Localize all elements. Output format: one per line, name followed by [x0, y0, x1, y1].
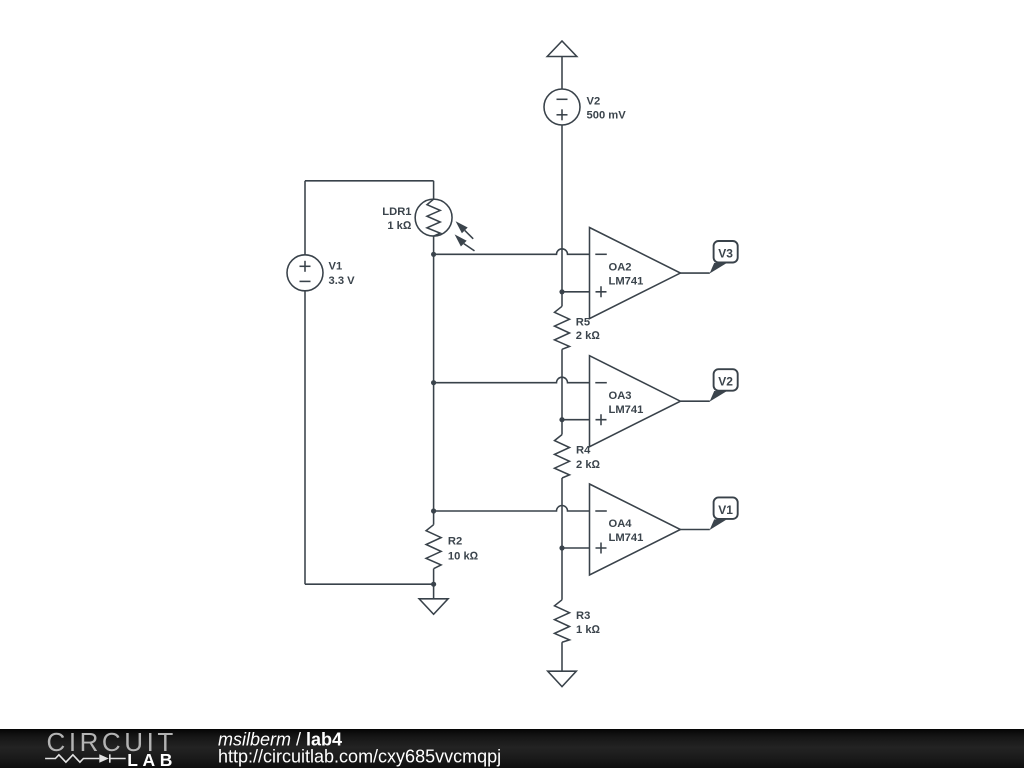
svg-text:R2: R2 [448, 536, 462, 548]
flag V3 [710, 241, 738, 274]
svg-text:V1: V1 [329, 261, 343, 273]
svg-text:http://circuitlab.com/cxy685vv: http://circuitlab.com/cxy685vvcmqpj [218, 746, 501, 766]
label R5 [576, 317, 601, 343]
svg-text:2 kΩ: 2 kΩ [576, 459, 601, 471]
wire OA3 non-inverting input [562, 419, 590, 421]
svg-text:R5: R5 [576, 317, 590, 329]
logo resistor-diode line [45, 754, 126, 762]
node E dot [431, 380, 436, 385]
svg-text:OA3: OA3 [609, 390, 632, 402]
svg-text:500 mV: 500 mV [587, 110, 627, 122]
label V1 value [329, 261, 356, 288]
resistor R5 [555, 292, 570, 420]
svg-text:LM741: LM741 [609, 532, 644, 544]
svg-text:LM741: LM741 [609, 404, 644, 416]
svg-text:OA4: OA4 [609, 518, 633, 530]
resistor R4 [555, 420, 570, 548]
node A dot [559, 289, 564, 294]
LDR1 arrow 2 [455, 234, 475, 251]
svg-text:V3: V3 [718, 246, 733, 260]
label OA4 [609, 518, 644, 544]
wire OA4 output [680, 529, 709, 531]
bottom bar [0, 729, 1024, 768]
resistor R2 [426, 511, 441, 584]
node B dot [559, 417, 564, 422]
wire middle vertical [433, 254, 435, 511]
op-amp OA4 [590, 484, 681, 575]
svg-text:V1: V1 [718, 503, 733, 517]
op-amp OA3 [590, 356, 681, 447]
ground G2 [548, 671, 577, 686]
flag V1 [710, 497, 738, 530]
op-amp OA2 [590, 228, 681, 319]
svg-text:3.3 V: 3.3 V [329, 275, 356, 287]
wire OA4 non-inverting input [562, 547, 590, 549]
label LDR1 [382, 206, 412, 232]
label V2 value [587, 96, 627, 122]
power flag VCC [547, 41, 577, 89]
svg-text:LAB: LAB [127, 750, 177, 768]
LDR1 arrow 1 [456, 221, 474, 239]
LDR LDR1 [415, 181, 452, 255]
svg-text:V2: V2 [587, 96, 601, 108]
wire OA3 output [680, 400, 709, 402]
wire left vertical upper [304, 181, 306, 255]
svg-text:1 kΩ: 1 kΩ [576, 624, 601, 636]
svg-text:OA2: OA2 [609, 262, 632, 274]
svg-text:V2: V2 [718, 375, 733, 389]
label R4 [576, 445, 601, 471]
wire OA2 non-inverting input [562, 291, 590, 293]
ground G1 [419, 584, 448, 614]
label OA2 [609, 262, 644, 288]
wire OA4 inverting input with hop [434, 506, 590, 511]
wire OA2 inverting input with hop [434, 249, 590, 254]
node D dot [431, 252, 436, 257]
label OA3 [609, 390, 644, 416]
label R3 [576, 610, 601, 636]
svg-text:R3: R3 [576, 610, 590, 622]
node F dot [431, 508, 436, 513]
voltage source V2 [544, 89, 580, 125]
node C dot [559, 545, 564, 550]
svg-text:1 kΩ: 1 kΩ [387, 220, 412, 232]
wire bottom horizontal [305, 583, 434, 585]
wire OA2 output [680, 272, 709, 274]
svg-text:2 kΩ: 2 kΩ [576, 330, 601, 342]
svg-text:LDR1: LDR1 [382, 206, 411, 218]
node G dot [431, 582, 436, 587]
svg-text:10 kΩ: 10 kΩ [448, 551, 479, 563]
wire V2 to node A [561, 125, 563, 292]
wire top horizontal [305, 180, 434, 182]
label R2 [448, 536, 479, 563]
resistor R3 [555, 548, 570, 671]
svg-text:LM741: LM741 [609, 276, 644, 288]
flag V2 [710, 369, 738, 402]
wire left vertical lower [304, 291, 306, 584]
wire OA3 inverting input with hop [434, 377, 590, 382]
voltage source V1 [287, 255, 323, 291]
